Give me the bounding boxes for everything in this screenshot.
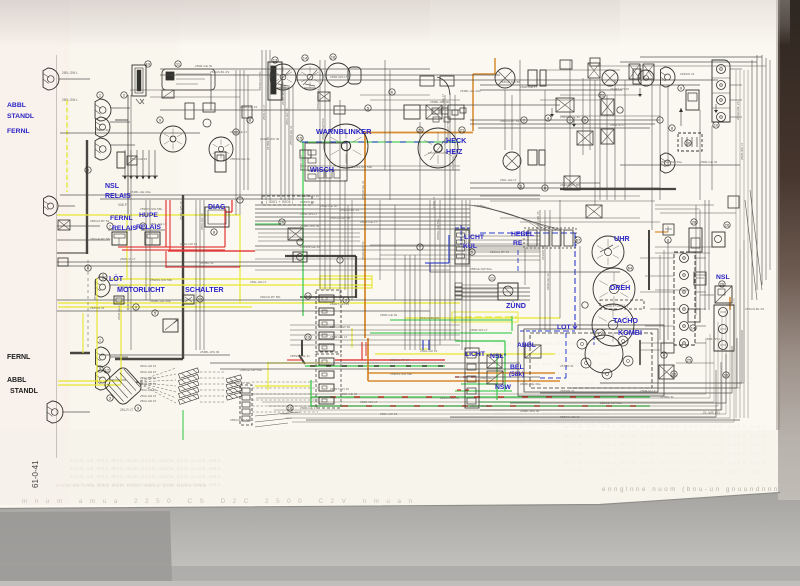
svg-text:FERNL: FERNL [7, 128, 30, 135]
svg-text:oinm un nmu mno uum nnue omnu: oinm un nmu mno uum nnue omnu usm nuna o… [70, 466, 220, 472]
svg-text:256GN-RT 54: 256GN-RT 54 [230, 418, 249, 422]
svg-text:250A-GR 15: 250A-GR 15 [285, 108, 289, 125]
svg-text:260GR-RT 58L: 260GR-RT 58L [260, 295, 281, 299]
svg-text:257BR 31: 257BR 31 [266, 136, 270, 150]
svg-text:250R-GE 30: 250R-GE 30 [546, 273, 550, 290]
svg-text:LICHT: LICHT [464, 234, 485, 241]
svg-text:256GN-RT 54: 256GN-RT 54 [90, 219, 109, 223]
svg-text:260GR-RT 58L: 260GR-RT 58L [560, 183, 581, 187]
svg-text:250R-WS LT: 250R-WS LT [330, 75, 348, 79]
svg-text:256GN-RT 54: 256GN-RT 54 [361, 241, 365, 260]
svg-text:250R-WS LT: 250R-WS LT [705, 337, 723, 341]
svg-text:251GN-BL 2S: 251GN-BL 2S [736, 101, 740, 120]
svg-text:254BL-WS 30: 254BL-WS 30 [200, 350, 220, 354]
svg-text:250L-SW L: 250L-SW L [62, 98, 78, 102]
svg-text:250R-GE 30: 250R-GE 30 [320, 204, 337, 208]
svg-text:DIAG: DIAG [208, 204, 226, 211]
svg-text:253GR-SW 58: 253GR-SW 58 [660, 307, 680, 311]
svg-text:oinm un nmu mno uum nnue omnu: oinm un nmu mno uum nnue omnu usm nuna o… [565, 469, 765, 475]
svg-text:RELAIS: RELAIS [105, 193, 131, 200]
svg-text:13: 13 [273, 58, 278, 63]
svg-text:BEL: BEL [510, 364, 524, 371]
svg-text:256GN-RT 54: 256GN-RT 54 [490, 250, 509, 254]
svg-text:250R-VI LT: 250R-VI LT [262, 105, 266, 120]
svg-text:255SW-GE 31: 255SW-GE 31 [289, 125, 293, 145]
svg-text:263SW 31: 263SW 31 [560, 389, 575, 393]
svg-text:257BR 31: 257BR 31 [432, 196, 436, 210]
svg-text:250R-GE LT: 250R-GE LT [520, 85, 537, 89]
svg-text:251-R LT: 251-R LT [120, 408, 133, 412]
svg-text:250R-VI LT: 250R-VI LT [640, 389, 656, 393]
svg-text:57: 57 [576, 238, 581, 243]
svg-text:RELAIS: RELAIS [136, 224, 161, 231]
svg-text:16: 16 [686, 141, 691, 146]
svg-text:254BL-WS 30: 254BL-WS 30 [179, 201, 183, 220]
svg-text:14: 14 [691, 326, 696, 331]
svg-text:250R-VI LT: 250R-VI LT [480, 361, 496, 365]
svg-text:250L-GE LT: 250L-GE LT [250, 280, 267, 284]
svg-text:10: 10 [714, 123, 719, 128]
svg-text:FERNL: FERNL [7, 354, 31, 361]
svg-text:254BL-WS 30: 254BL-WS 30 [300, 224, 320, 228]
svg-text:250A-GR 15: 250A-GR 15 [140, 376, 156, 380]
svg-text:254BL-WS 30: 254BL-WS 30 [520, 409, 540, 413]
svg-text:251GN-BL 2S: 251GN-BL 2S [745, 307, 764, 311]
svg-text:25: 25 [687, 358, 692, 363]
svg-text:18: 18 [288, 406, 293, 411]
svg-text:254BL-WS 30: 254BL-WS 30 [281, 86, 285, 105]
svg-text:250A-GR 15: 250A-GR 15 [140, 364, 156, 368]
svg-text:61-0-41: 61-0-41 [31, 460, 40, 488]
svg-text:UHR: UHR [614, 234, 630, 243]
svg-text:250R-GE 30: 250R-GE 30 [700, 160, 717, 164]
svg-text:16: 16 [724, 373, 729, 378]
svg-text:TACHO: TACHO [613, 316, 638, 325]
svg-text:257BR 31: 257BR 31 [200, 261, 214, 265]
svg-text:NSL: NSL [716, 274, 730, 281]
svg-text:LOT: LOT [557, 324, 571, 331]
svg-text:ABBL: ABBL [517, 342, 536, 349]
svg-text:250R-GE LT: 250R-GE LT [360, 220, 377, 224]
svg-text:250L-GE LT: 250L-GE LT [480, 376, 497, 380]
svg-text:(58k): (58k) [509, 371, 524, 378]
svg-text:oinm un nmu mno uum nnue omnu: oinm un nmu mno uum nnue omnu usm nuna [494, 341, 609, 346]
svg-text:NSL: NSL [105, 183, 120, 190]
svg-text:FERNL: FERNL [110, 215, 133, 222]
svg-text:250R-WS LT: 250R-WS LT [300, 212, 318, 216]
svg-text:253GR-SW 58: 253GR-SW 58 [330, 325, 350, 329]
svg-text:250R-GE LT: 250R-GE LT [230, 130, 247, 134]
svg-text:250R-VI LT: 250R-VI LT [120, 257, 136, 261]
svg-text:ABBL: ABBL [7, 102, 26, 109]
svg-text:250R-VI LT: 250R-VI LT [610, 123, 626, 127]
svg-text:251GN-BL 2S: 251GN-BL 2S [210, 70, 229, 74]
svg-text:253GR-SW 58: 253GR-SW 58 [500, 80, 520, 84]
svg-text:10: 10 [280, 220, 285, 225]
svg-text:261BL-GE 49a: 261BL-GE 49a [520, 382, 541, 386]
svg-text:250L-GE LT: 250L-GE LT [441, 94, 445, 110]
svg-text:255SW-GE 31: 255SW-GE 31 [560, 415, 580, 419]
svg-text:263SW 31: 263SW 31 [90, 306, 105, 310]
svg-text:250A-GR 15: 250A-GR 15 [380, 412, 397, 416]
svg-text:DREH: DREH [610, 283, 630, 292]
svg-text:257BR 31: 257BR 31 [95, 128, 109, 132]
svg-text:oinm un nmu mno uum nnue omnu: oinm un nmu mno uum nnue omnu usm nuna o… [565, 460, 765, 466]
svg-text:257BR 31: 257BR 31 [560, 364, 574, 368]
svg-text:250R-WS LT: 250R-WS LT [360, 400, 378, 404]
svg-text:15: 15 [298, 136, 303, 141]
svg-text:261BL-GE 49a: 261BL-GE 49a [460, 89, 481, 93]
svg-text:251GN-BL 2S: 251GN-BL 2S [420, 316, 439, 320]
svg-text:250A-GR 15: 250A-GR 15 [130, 157, 147, 161]
svg-text:oinm un nmu mno uum nnue omnu: oinm un nmu mno uum nnue omnu usm nuna o… [70, 458, 220, 464]
svg-text:SCHALTER: SCHALTER [185, 285, 224, 294]
svg-text:261BL-GE 49a: 261BL-GE 49a [150, 299, 171, 303]
svg-text:KOMBI: KOMBI [618, 328, 642, 337]
svg-text:RELAIS: RELAIS [112, 225, 137, 232]
svg-text:259WS-SW 56b: 259WS-SW 56b [140, 207, 162, 211]
svg-text:253GR-SW 58: 253GR-SW 58 [93, 280, 97, 300]
svg-text:253GR-SW 58: 253GR-SW 58 [330, 216, 350, 220]
svg-text:HUPE: HUPE [139, 212, 158, 219]
svg-text:263SW 31: 263SW 31 [300, 200, 315, 204]
svg-text:12: 12 [105, 368, 110, 373]
svg-text:253GR-SW 58: 253GR-SW 58 [470, 404, 490, 408]
svg-text:251GN-BL 2S: 251GN-BL 2S [340, 208, 359, 212]
svg-text:ennglnne nuom (bnu-un gnuundnn: ennglnne nuom (bnu-un gnuundnnn) [602, 486, 782, 493]
svg-text:oinm un nmu mno uum nnue omnu: oinm un nmu mno uum nnue omnu usm nuna o… [565, 433, 765, 439]
svg-text:263SW 31: 263SW 31 [680, 72, 695, 76]
svg-text:HEBEL: HEBEL [511, 231, 534, 238]
svg-text:259WS-SW 56b: 259WS-SW 56b [350, 165, 372, 169]
svg-text:STANDL: STANDL [10, 388, 39, 395]
svg-text:250R-GE LT: 250R-GE LT [117, 303, 121, 320]
svg-text:250L-GE LT: 250L-GE LT [500, 178, 517, 182]
svg-text:262RT-GN 15: 262RT-GN 15 [300, 194, 319, 198]
svg-text:260GR-RT 58L: 260GR-RT 58L [230, 381, 251, 385]
svg-text:...GL-WS (R): ...GL-WS (R) [700, 411, 720, 415]
svg-text:LÖT: LÖT [109, 274, 124, 283]
svg-text:15: 15 [672, 372, 677, 377]
svg-text:258GE-SW 56a: 258GE-SW 56a [660, 160, 682, 164]
svg-text:250L-SW L: 250L-SW L [62, 71, 78, 75]
svg-text:oinm un nmu mno uum nnue omnu: oinm un nmu mno uum nnue omnu usm nuna o… [565, 442, 765, 448]
svg-text:250R-GE 30: 250R-GE 30 [195, 64, 212, 68]
svg-text:NSL°: NSL° [490, 352, 507, 360]
svg-text:21: 21 [460, 128, 465, 133]
svg-text:RE: RE [513, 240, 523, 247]
svg-text:ABBL: ABBL [7, 377, 27, 384]
svg-text:250A-GR 15: 250A-GR 15 [180, 242, 197, 246]
svg-text:ZÜND: ZÜND [506, 301, 526, 310]
svg-text:16: 16 [331, 55, 336, 60]
svg-text:258GE-SW 56a: 258GE-SW 56a [316, 89, 320, 110]
svg-text:20: 20 [418, 128, 423, 133]
svg-text:255SW-GE 31: 255SW-GE 31 [230, 157, 250, 161]
svg-text:258GE-SW 56a: 258GE-SW 56a [436, 219, 440, 240]
svg-text:oinm un nmu mno uum nnue omnu: oinm un nmu mno uum nnue omnu usm nuna [494, 411, 609, 416]
svg-text:250R-GE 30: 250R-GE 30 [380, 313, 397, 317]
svg-text:250R-VI LT: 250R-VI LT [299, 155, 303, 170]
svg-text:250A-GR 15: 250A-GR 15 [240, 105, 257, 109]
svg-text:HEIZ: HEIZ [446, 147, 463, 156]
svg-text:257BR 31: 257BR 31 [660, 395, 674, 399]
svg-text:250A-GR 15: 250A-GR 15 [140, 394, 156, 398]
svg-text:64: 64 [628, 266, 633, 271]
svg-text:14: 14 [303, 56, 308, 61]
svg-text:255SW-GE 31: 255SW-GE 31 [290, 354, 310, 358]
svg-text:oinm un nmu mno uum nnue omnu: oinm un nmu mno uum nnue omnu usm nuna o… [565, 451, 765, 457]
svg-text:263SW 31: 263SW 31 [541, 246, 545, 260]
svg-text:260GR-RT 58L: 260GR-RT 58L [90, 237, 111, 241]
svg-text:X58-P: X58-P [118, 203, 127, 207]
svg-text:261BL-GE 49a: 261BL-GE 49a [130, 190, 151, 194]
svg-text:KUL: KUL [463, 243, 477, 250]
svg-text:251GN-BL 2S: 251GN-BL 2S [440, 396, 459, 400]
svg-text:250R-GE LT: 250R-GE LT [300, 406, 317, 410]
svg-text:MOTORLICHT: MOTORLICHT [117, 285, 165, 294]
svg-text:258GE-SW 56a: 258GE-SW 56a [600, 401, 622, 405]
svg-text:LICHT: LICHT [465, 351, 486, 358]
svg-text:WARNBLINKER: WARNBLINKER [316, 127, 372, 136]
svg-text:256GN-RT 54: 256GN-RT 54 [500, 119, 519, 123]
svg-text:250R-GE LT: 250R-GE LT [330, 335, 347, 339]
svg-text:262RT-GN 15: 262RT-GN 15 [330, 302, 349, 306]
svg-text:258GE-SW 56a: 258GE-SW 56a [240, 368, 262, 372]
svg-text:262RT-GN 15: 262RT-GN 15 [330, 387, 349, 391]
svg-text:259WS-SW 56b: 259WS-SW 56b [390, 372, 412, 376]
svg-text:WISCH: WISCH [310, 165, 334, 174]
svg-text:254BL-WS 30: 254BL-WS 30 [430, 100, 450, 104]
svg-text:262RT-GN 15: 262RT-GN 15 [536, 211, 540, 230]
svg-text:250A-GR 15: 250A-GR 15 [200, 213, 204, 230]
svg-text:255SW-GE 31: 255SW-GE 31 [300, 245, 320, 249]
svg-text:13: 13 [198, 297, 203, 302]
svg-text:262RT-GN 15: 262RT-GN 15 [610, 87, 629, 91]
svg-text:oinm un nmu mno uum nnue omnu: oinm un nmu mno uum nnue omnu usm nuna o… [70, 474, 220, 480]
svg-text:255SW-GE 31: 255SW-GE 31 [361, 180, 365, 200]
svg-text:256GN-RT 54: 256GN-RT 54 [390, 358, 409, 362]
svg-text:256GN-RT 54: 256GN-RT 54 [258, 71, 262, 90]
svg-text:250A-GR 15: 250A-GR 15 [140, 382, 156, 386]
svg-text:250A-GR 15: 250A-GR 15 [140, 399, 156, 403]
svg-text:oinm un nmu mno uum nnue omnu: oinm un nmu mno uum nnue omnu usm nuna o… [565, 424, 765, 430]
svg-text:250R-GE 30: 250R-GE 30 [340, 392, 357, 396]
svg-text:250A-GR 15: 250A-GR 15 [420, 349, 437, 353]
svg-text:258GE-SW 56a: 258GE-SW 56a [470, 267, 492, 271]
svg-text:19: 19 [146, 62, 151, 67]
svg-text:250A-GR 15: 250A-GR 15 [140, 370, 156, 374]
svg-text:250R-WS LT: 250R-WS LT [740, 143, 744, 160]
svg-text:STANDL: STANDL [7, 113, 34, 120]
svg-text:oinm un nmu mno uum nnue omnu: oinm un nmu mno uum nnue omnu usm nuna o… [56, 483, 206, 489]
svg-text:250R-WS LT: 250R-WS LT [470, 328, 488, 332]
svg-text:255SW-GE 31: 255SW-GE 31 [560, 115, 580, 119]
svg-text:259WS-SW 56b: 259WS-SW 56b [150, 278, 172, 282]
svg-text:HECK: HECK [446, 136, 467, 145]
svg-text:14: 14 [306, 294, 311, 299]
svg-text:26: 26 [725, 223, 730, 228]
svg-text:NSW: NSW [495, 384, 511, 391]
